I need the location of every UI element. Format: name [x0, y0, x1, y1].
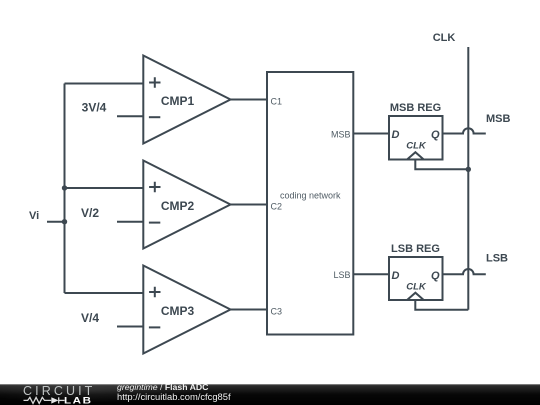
svg-text:Q: Q [431, 129, 440, 141]
svg-text:C1: C1 [271, 96, 283, 106]
node junction Vi input [62, 219, 67, 224]
wire LSB Q output with hop over CLK [443, 269, 486, 274]
svg-text:C3: C3 [271, 306, 283, 316]
node junction Vi bus to CMP2 [62, 185, 67, 190]
logo diode triangle [51, 397, 58, 403]
comparator CMP2 [143, 161, 230, 249]
footer logo glow [0, 377, 195, 403]
wire MSB REG clock tap [415, 160, 468, 170]
wire CMP2 + input [65, 187, 144, 189]
footer bar background [0, 384, 540, 405]
svg-text:Vi: Vi [29, 210, 39, 222]
coding network box [267, 72, 353, 335]
wire V/4 reference stub [117, 326, 143, 328]
wire MSB coding network to D input [353, 133, 389, 135]
wire CMP2 output to node C2 [231, 204, 268, 206]
node junction CLK tap [466, 167, 471, 172]
wire 3V/4 reference stub [117, 115, 143, 117]
svg-text:V/4: V/4 [81, 311, 99, 325]
svg-text:CLK: CLK [406, 281, 427, 292]
wire Vi vertical bus [64, 84, 66, 294]
svg-text:LAB: LAB [64, 396, 93, 405]
wire V/2 reference stub [117, 221, 143, 223]
svg-text:CLK: CLK [406, 141, 427, 152]
svg-text:3V/4: 3V/4 [82, 100, 107, 114]
svg-text:Q: Q [431, 270, 440, 282]
wire CMP3 + input [65, 292, 144, 294]
comparator CMP3 [143, 266, 230, 354]
flip-flop LSB REG [389, 257, 443, 300]
wire LSB coding network to D input [353, 273, 389, 275]
wire CMP3 output to node C3 [231, 309, 268, 311]
svg-text:CLK: CLK [433, 32, 456, 44]
svg-text:LSB REG: LSB REG [391, 243, 440, 255]
wire Vi input stub [47, 221, 65, 223]
svg-text:LSB: LSB [486, 253, 508, 265]
wire CMP1 output to node C1 [231, 99, 268, 101]
comparator CMP1 [143, 56, 230, 144]
svg-text:D: D [392, 270, 400, 282]
svg-text:MSB: MSB [486, 113, 511, 125]
svg-text:LSB: LSB [333, 270, 350, 280]
svg-text:CMP1: CMP1 [161, 94, 195, 108]
flip-flop MSB REG [389, 116, 443, 160]
svg-text:MSB: MSB [331, 129, 351, 139]
svg-text:coding network: coding network [280, 191, 341, 201]
logo resistor zigzag and diode [24, 397, 65, 403]
svg-text:C2: C2 [271, 201, 283, 211]
wire CLK vertical net [467, 47, 469, 310]
wire LSB REG clock tap [415, 300, 468, 310]
svg-text:V/2: V/2 [81, 206, 99, 220]
svg-text:CMP3: CMP3 [161, 304, 195, 318]
svg-text:http://circuitlab.com/cfcg85f: http://circuitlab.com/cfcg85f [117, 391, 231, 402]
svg-text:MSB REG: MSB REG [390, 102, 441, 114]
svg-text:D: D [392, 129, 400, 141]
svg-text:CMP2: CMP2 [161, 199, 195, 213]
wire MSB Q output with hop over CLK [443, 128, 486, 133]
wire CMP1 + input [65, 83, 144, 85]
